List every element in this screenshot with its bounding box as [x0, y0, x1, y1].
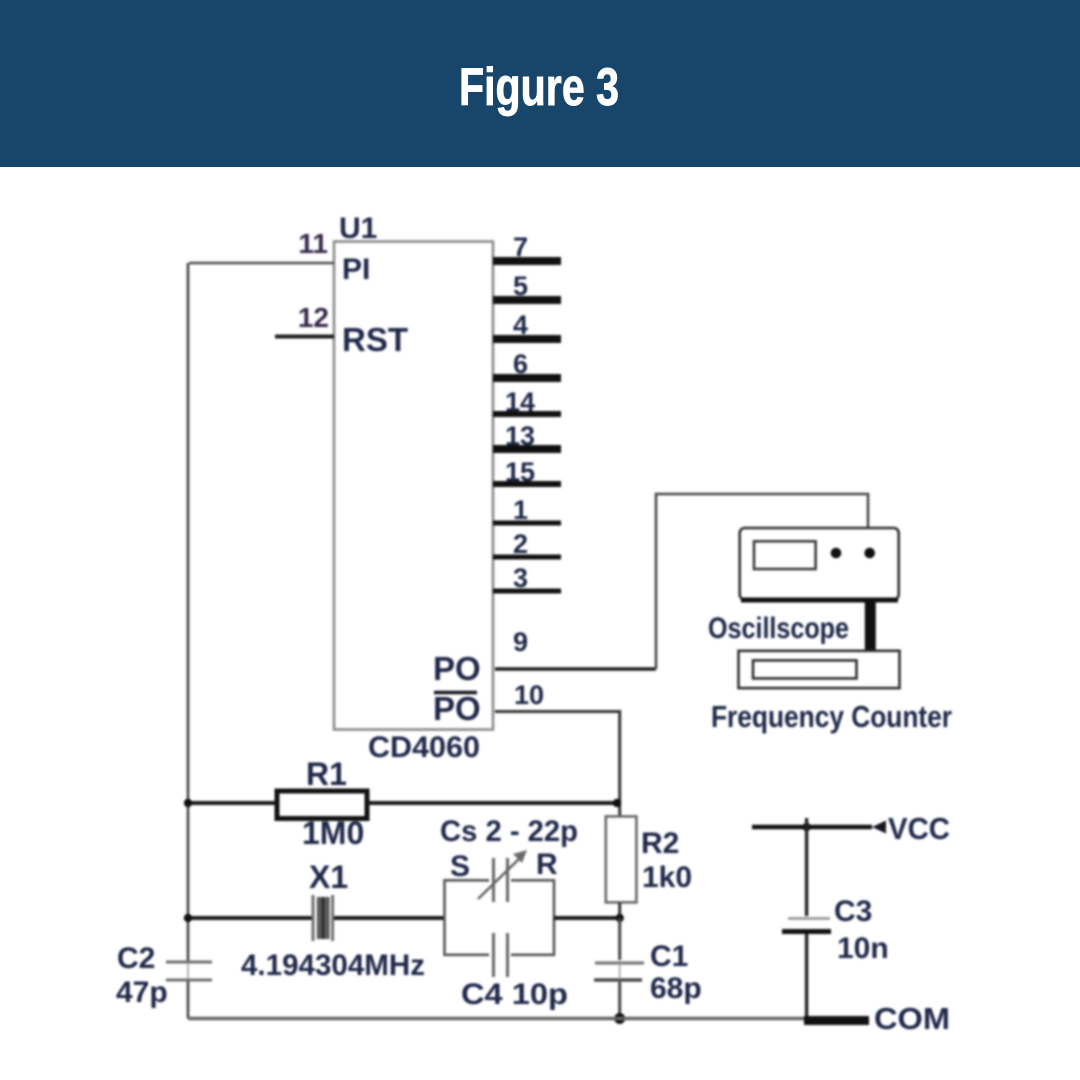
R terminal label — [536, 848, 558, 881]
junction VCC / C3 — [802, 823, 810, 831]
svg-text:C3: C3 — [834, 895, 872, 928]
svg-text:10n: 10n — [837, 932, 889, 965]
pin PI label — [342, 253, 370, 286]
svg-text:15: 15 — [505, 457, 535, 487]
pin 7 number — [513, 232, 528, 262]
svg-text:R: R — [536, 848, 558, 881]
pin 15 number — [505, 457, 535, 487]
variable capacitor Cs — [478, 850, 527, 902]
pin 4 number — [513, 310, 528, 340]
pin 10 number — [514, 680, 544, 710]
C3 label — [834, 895, 872, 928]
svg-text:Frequency Counter: Frequency Counter — [711, 699, 952, 734]
junction left rail / R1 — [184, 799, 192, 807]
S terminal label — [450, 850, 470, 883]
pin 9 number — [513, 627, 528, 657]
Oscilloscope label — [708, 612, 849, 645]
C4 label and value — [461, 978, 568, 1011]
frequency counter instrument — [739, 651, 900, 688]
svg-text:9: 9 — [513, 627, 528, 657]
U1 label — [339, 212, 377, 245]
bottom rail wire — [188, 1017, 806, 1021]
junction bottom rail / C1 — [614, 1013, 625, 1024]
Cs value label — [440, 815, 578, 848]
svg-text:6: 6 — [513, 349, 528, 379]
pin 1 number — [513, 495, 528, 525]
X1 value 4.194304MHz — [241, 949, 425, 982]
junction R1 / R2 node — [613, 799, 621, 807]
capacitor C1 — [594, 918, 644, 1019]
svg-text:PI: PI — [342, 253, 370, 286]
svg-text:C2: C2 — [117, 942, 155, 975]
svg-text:14: 14 — [505, 387, 535, 417]
svg-text:68p: 68p — [650, 972, 702, 1005]
svg-text:3: 3 — [513, 563, 528, 593]
svg-text:47p: 47p — [116, 976, 168, 1009]
svg-text:11: 11 — [298, 228, 328, 259]
svg-text:X1: X1 — [309, 859, 348, 895]
pin 2 number — [513, 529, 528, 559]
R1 value 1M0 — [302, 815, 364, 851]
svg-text:1k0: 1k0 — [642, 861, 692, 894]
svg-text:C4 10p: C4 10p — [461, 978, 568, 1011]
VCC label — [888, 811, 950, 846]
svg-text:U1: U1 — [339, 212, 377, 245]
pin PO-bar label — [433, 690, 481, 727]
svg-text:S: S — [450, 850, 470, 883]
pin 13 number — [505, 421, 535, 451]
pin 6 number — [513, 349, 528, 379]
junction X1 wire / R2 bottom — [616, 914, 624, 922]
svg-text:VCC: VCC — [888, 811, 950, 846]
X1 label — [309, 859, 348, 895]
svg-text:13: 13 — [505, 421, 535, 451]
svg-text:Cs 2 - 22p: Cs 2 - 22p — [440, 815, 578, 848]
pin RST label — [342, 321, 408, 358]
resistor R1 — [187, 791, 620, 819]
pin 5 number — [513, 271, 528, 301]
wire pin 9 to oscilloscope — [656, 494, 868, 669]
C1 label — [650, 940, 688, 973]
junction left rail / X1 wire — [184, 914, 192, 922]
figure title — [0, 0, 1080, 167]
svg-text:5: 5 — [513, 271, 528, 301]
svg-text:RST: RST — [342, 321, 408, 358]
pin 5 bar — [493, 296, 561, 304]
VCC arrow — [872, 821, 886, 834]
pin PO label — [433, 650, 481, 687]
svg-text:4: 4 — [513, 310, 528, 340]
pin 3 number — [513, 563, 528, 593]
pin 2 bar — [493, 555, 561, 560]
svg-text:1: 1 — [513, 495, 528, 525]
C2 label — [117, 942, 155, 975]
COM rail bar — [804, 1016, 869, 1025]
svg-text:7: 7 — [513, 232, 528, 262]
R2 value 1k0 — [642, 861, 692, 894]
svg-text:CD4060: CD4060 — [368, 731, 480, 764]
crystal X1 — [187, 895, 445, 941]
connector bar oscilloscope to frequency counter — [865, 599, 876, 652]
svg-text:2: 2 — [513, 529, 528, 559]
svg-text:R2: R2 — [641, 827, 679, 860]
trimmer network frame — [445, 880, 555, 955]
C3 value 10n — [837, 932, 889, 965]
op IC U1 CD4060 body — [334, 242, 493, 730]
svg-text:R1: R1 — [306, 756, 347, 792]
svg-text:COM: COM — [874, 1001, 950, 1036]
COM label — [874, 1001, 950, 1036]
svg-text:PO: PO — [433, 650, 481, 687]
C2 value 47p — [116, 976, 168, 1009]
svg-text:12: 12 — [298, 302, 329, 333]
pin 14 number — [505, 387, 535, 417]
CD4060 part label — [368, 731, 480, 764]
pin RST stub wire — [275, 335, 334, 339]
pin 3 bar — [493, 589, 561, 594]
capacitor C3 — [782, 818, 831, 1020]
pin 6 bar — [493, 374, 561, 382]
left rail wire — [187, 263, 190, 1019]
R2 label — [641, 827, 679, 860]
pin 11 number — [298, 228, 328, 259]
Frequency Counter label — [711, 699, 952, 734]
pin 14 bar — [493, 411, 561, 417]
svg-text:C1: C1 — [650, 940, 688, 973]
svg-text:PO: PO — [433, 690, 481, 727]
wire trimmer to R2 bottom node — [554, 916, 620, 920]
wire pin 11 to left rail — [189, 262, 334, 265]
VCC supply wire — [752, 825, 872, 829]
wire pin 10 to R2 top node — [495, 712, 620, 817]
pin 7 bar — [493, 257, 561, 265]
R1 label — [306, 756, 347, 792]
capacitor C4 — [494, 933, 508, 977]
pin 1 bar — [493, 521, 561, 526]
oscilloscope instrument U-osc — [740, 528, 899, 600]
wire pin 9 stub — [495, 667, 656, 671]
C1 value 68p — [650, 972, 702, 1005]
header band — [0, 0, 1080, 167]
capacitor C2 — [166, 962, 212, 980]
svg-text:10: 10 — [514, 680, 544, 710]
pin 12 number — [298, 302, 329, 333]
pin 13 bar — [493, 445, 561, 453]
pin 15 bar — [493, 481, 561, 487]
svg-text:Oscillscope: Oscillscope — [708, 612, 849, 645]
pin 4 bar — [493, 335, 561, 343]
resistor R2 — [606, 816, 637, 918]
svg-text:4.194304MHz: 4.194304MHz — [241, 949, 425, 982]
svg-text:1M0: 1M0 — [302, 815, 364, 851]
